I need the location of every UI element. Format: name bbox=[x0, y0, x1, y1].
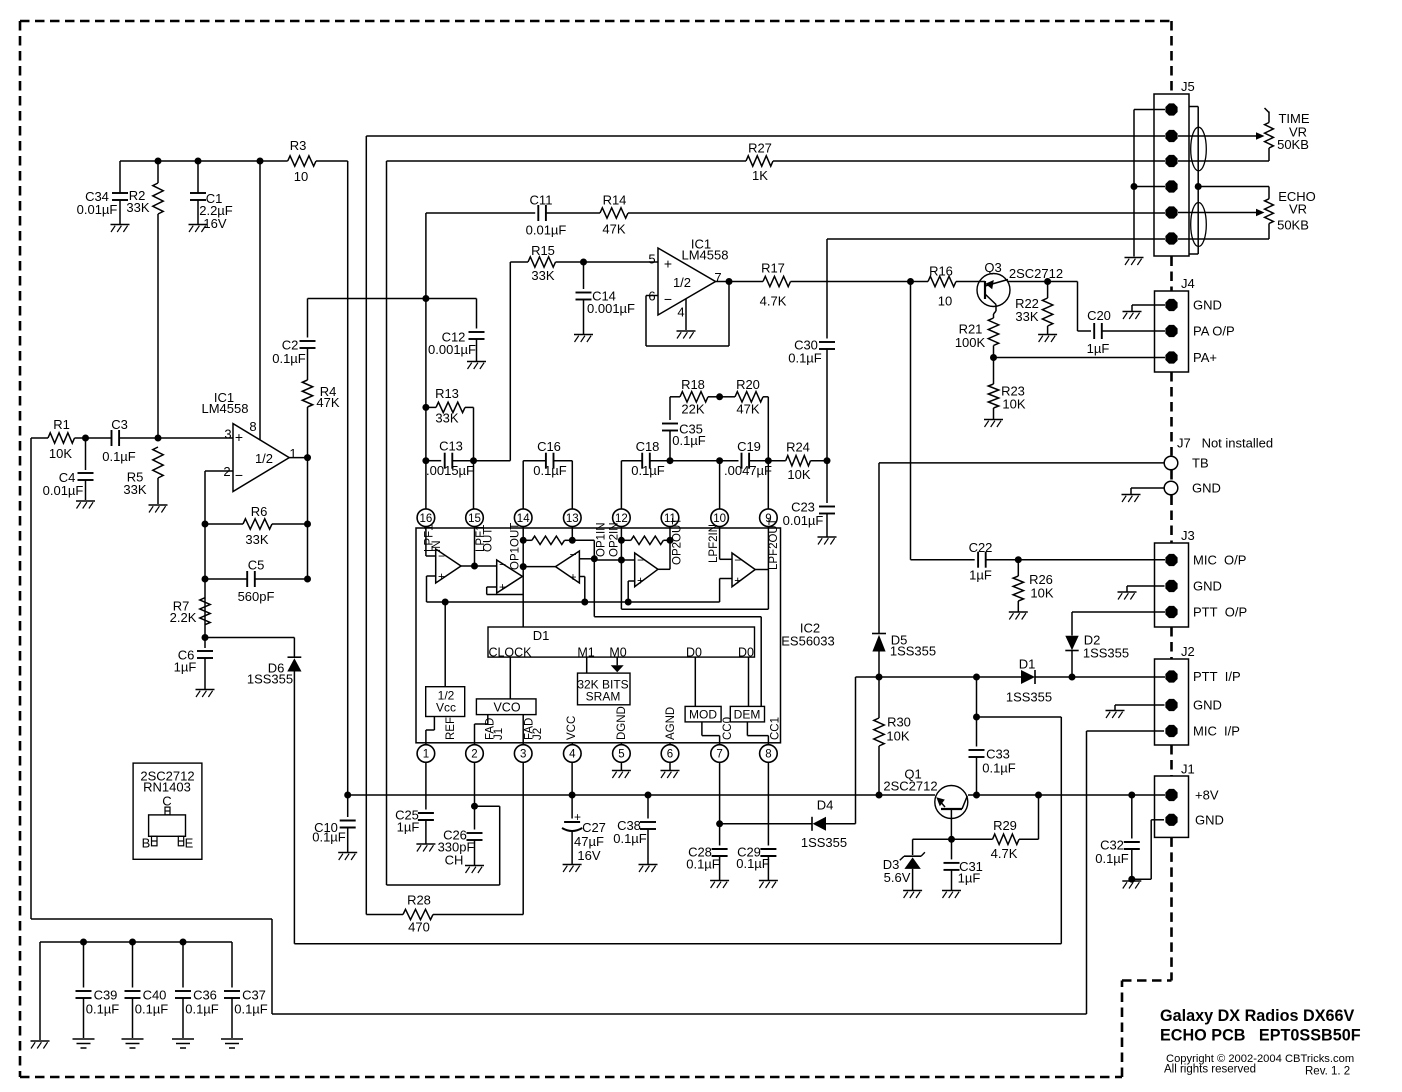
svg-text:0.1µF: 0.1µF bbox=[982, 761, 1016, 776]
svg-text:0.1µF: 0.1µF bbox=[1095, 851, 1129, 866]
svg-text:GND: GND bbox=[1193, 698, 1222, 713]
svg-text:50KB: 50KB bbox=[1277, 137, 1309, 152]
svg-text:10K: 10K bbox=[787, 467, 810, 482]
svg-text:2: 2 bbox=[471, 749, 477, 761]
svg-text:GND: GND bbox=[1192, 481, 1221, 496]
svg-text:ECHO PCB EPT0SSB50F: ECHO PCB EPT0SSB50F bbox=[1160, 1027, 1361, 1045]
svg-text:R14: R14 bbox=[603, 193, 627, 208]
svg-text:4: 4 bbox=[569, 749, 576, 761]
svg-text:1/2: 1/2 bbox=[673, 275, 691, 290]
svg-text:B: B bbox=[142, 836, 151, 851]
svg-text:LM4558: LM4558 bbox=[202, 401, 249, 416]
svg-text:R1: R1 bbox=[53, 417, 70, 432]
svg-text:0.1µF: 0.1µF bbox=[135, 1002, 169, 1017]
svg-text:J3: J3 bbox=[1181, 528, 1195, 543]
svg-text:10K: 10K bbox=[49, 446, 72, 461]
svg-text:R29: R29 bbox=[993, 818, 1017, 833]
svg-text:OP1OUT: OP1OUT bbox=[510, 523, 522, 570]
svg-text:LPF2IN: LPF2IN bbox=[708, 524, 720, 563]
svg-text:33K: 33K bbox=[1015, 309, 1038, 324]
svg-text:TB: TB bbox=[1192, 456, 1209, 471]
svg-text:J4: J4 bbox=[1181, 276, 1195, 291]
svg-text:47K: 47K bbox=[602, 222, 625, 237]
svg-text:+: + bbox=[499, 580, 506, 594]
svg-text:ES56033: ES56033 bbox=[781, 634, 835, 649]
svg-text:0.1µF: 0.1µF bbox=[102, 449, 136, 464]
svg-text:50KB: 50KB bbox=[1277, 218, 1309, 233]
svg-text:RN1403: RN1403 bbox=[143, 780, 191, 795]
svg-text:5: 5 bbox=[648, 252, 655, 267]
svg-text:R6: R6 bbox=[251, 504, 268, 519]
svg-text:0.1µF: 0.1µF bbox=[631, 463, 665, 478]
svg-text:−: − bbox=[734, 553, 741, 567]
svg-text:33K: 33K bbox=[531, 268, 554, 283]
svg-text:R13: R13 bbox=[435, 386, 459, 401]
svg-text:DGND: DGND bbox=[616, 706, 628, 740]
svg-text:−: − bbox=[499, 558, 506, 572]
svg-text:.0047µF: .0047µF bbox=[724, 463, 772, 478]
svg-text:2SC2712: 2SC2712 bbox=[883, 779, 937, 794]
svg-text:22K: 22K bbox=[681, 402, 704, 417]
svg-text:OP2IN: OP2IN bbox=[609, 522, 621, 557]
svg-text:47K: 47K bbox=[736, 402, 759, 417]
svg-text:470: 470 bbox=[408, 920, 430, 935]
svg-text:10K: 10K bbox=[1002, 397, 1025, 412]
svg-text:10: 10 bbox=[938, 294, 952, 309]
svg-text:PA+: PA+ bbox=[1193, 350, 1217, 365]
svg-text:0.01µF: 0.01µF bbox=[526, 223, 567, 238]
svg-text:0.01µF: 0.01µF bbox=[783, 513, 824, 528]
svg-text:C20: C20 bbox=[1087, 308, 1111, 323]
svg-text:J7 Not installed: J7 Not installed bbox=[1177, 436, 1273, 451]
svg-text:560pF: 560pF bbox=[238, 589, 275, 604]
svg-text:1: 1 bbox=[289, 446, 296, 461]
svg-text:1SS355: 1SS355 bbox=[247, 672, 293, 687]
svg-text:R27: R27 bbox=[748, 141, 772, 156]
svg-text:CH: CH bbox=[445, 853, 464, 868]
svg-text:M0: M0 bbox=[609, 646, 626, 660]
svg-text:C: C bbox=[162, 794, 171, 809]
svg-text:Q3: Q3 bbox=[984, 260, 1001, 275]
svg-text:GND: GND bbox=[1193, 579, 1222, 594]
svg-text:3: 3 bbox=[520, 749, 526, 761]
svg-text:47µF: 47µF bbox=[574, 834, 604, 849]
svg-text:0.1µF: 0.1µF bbox=[533, 463, 567, 478]
svg-text:4: 4 bbox=[677, 305, 684, 320]
svg-text:10K: 10K bbox=[1030, 586, 1053, 601]
svg-text:2.2K: 2.2K bbox=[170, 610, 197, 625]
svg-text:1µF: 1µF bbox=[397, 820, 420, 835]
svg-text:D1: D1 bbox=[533, 628, 550, 643]
svg-text:R15: R15 bbox=[531, 243, 555, 258]
svg-text:LPF2OUT: LPF2OUT bbox=[768, 518, 780, 570]
svg-text:R16: R16 bbox=[929, 264, 953, 279]
svg-text:J2: J2 bbox=[1181, 644, 1195, 659]
svg-text:R18: R18 bbox=[681, 377, 705, 392]
svg-text:+: + bbox=[569, 570, 576, 584]
svg-text:E: E bbox=[185, 836, 194, 851]
svg-text:0.1µF: 0.1µF bbox=[613, 831, 647, 846]
svg-text:C39: C39 bbox=[94, 988, 118, 1003]
svg-text:0.1µF: 0.1µF bbox=[86, 1002, 120, 1017]
svg-text:C37: C37 bbox=[242, 988, 266, 1003]
svg-text:C11: C11 bbox=[530, 193, 553, 208]
svg-text:DEM: DEM bbox=[734, 708, 761, 722]
svg-text:C33: C33 bbox=[986, 747, 1010, 762]
svg-text:OP1IN: OP1IN bbox=[596, 522, 608, 557]
svg-text:0.1µF: 0.1µF bbox=[185, 1002, 219, 1017]
svg-text:0.1µF: 0.1µF bbox=[272, 351, 306, 366]
svg-text:R30: R30 bbox=[887, 715, 911, 730]
svg-text:J1: J1 bbox=[1181, 762, 1195, 777]
svg-text:PA O/P: PA O/P bbox=[1193, 324, 1235, 339]
svg-text:1µF: 1µF bbox=[1087, 341, 1110, 356]
svg-text:1/2: 1/2 bbox=[255, 451, 273, 466]
svg-text:.0015µF: .0015µF bbox=[426, 463, 474, 478]
svg-text:100K: 100K bbox=[955, 335, 986, 350]
svg-text:MIC I/P: MIC I/P bbox=[1193, 724, 1240, 739]
svg-text:C36: C36 bbox=[193, 988, 217, 1003]
svg-text:MOD: MOD bbox=[689, 708, 717, 722]
svg-text:VR: VR bbox=[1289, 202, 1307, 217]
svg-text:AGND: AGND bbox=[665, 707, 677, 740]
svg-text:CC1: CC1 bbox=[770, 717, 782, 740]
svg-text:10K: 10K bbox=[886, 729, 909, 744]
svg-text:+8V: +8V bbox=[1195, 788, 1219, 803]
svg-text:CC0: CC0 bbox=[722, 717, 734, 740]
svg-text:D0: D0 bbox=[738, 646, 754, 660]
svg-text:IN: IN bbox=[431, 541, 443, 553]
svg-text:+: + bbox=[664, 256, 672, 272]
svg-text:10: 10 bbox=[713, 513, 726, 525]
svg-text:C16: C16 bbox=[537, 439, 561, 454]
svg-text:0.1µF: 0.1µF bbox=[736, 856, 770, 871]
svg-text:Galaxy DX Radios DX66V: Galaxy DX Radios DX66V bbox=[1160, 1007, 1355, 1025]
svg-text:+: + bbox=[734, 574, 741, 588]
svg-text:−: − bbox=[569, 548, 576, 562]
svg-text:5: 5 bbox=[618, 749, 624, 761]
svg-text:J1: J1 bbox=[493, 728, 505, 740]
svg-text:8: 8 bbox=[765, 749, 771, 761]
svg-text:C5: C5 bbox=[248, 558, 265, 573]
svg-text:R17: R17 bbox=[761, 261, 785, 276]
svg-text:+: + bbox=[574, 810, 581, 824]
svg-text:D1: D1 bbox=[1019, 657, 1036, 672]
svg-text:33K: 33K bbox=[245, 532, 268, 547]
svg-text:10: 10 bbox=[294, 169, 308, 184]
svg-text:C27: C27 bbox=[582, 820, 606, 835]
svg-text:PTT O/P: PTT O/P bbox=[1193, 605, 1247, 620]
svg-text:0.1µF: 0.1µF bbox=[686, 857, 720, 872]
svg-text:+: + bbox=[438, 570, 445, 584]
svg-text:0.1µF: 0.1µF bbox=[234, 1002, 268, 1017]
svg-text:16: 16 bbox=[420, 513, 433, 525]
svg-text:0.01µF: 0.01µF bbox=[77, 202, 118, 217]
svg-text:VCO: VCO bbox=[493, 701, 520, 715]
svg-text:13: 13 bbox=[566, 513, 579, 525]
svg-text:VCC: VCC bbox=[566, 716, 578, 740]
svg-text:1SS355: 1SS355 bbox=[890, 644, 936, 659]
svg-text:Vcc: Vcc bbox=[436, 701, 456, 715]
svg-text:16V: 16V bbox=[577, 848, 600, 863]
svg-text:7: 7 bbox=[716, 749, 722, 761]
svg-text:0.1µF: 0.1µF bbox=[788, 351, 822, 366]
svg-text:0.1µF: 0.1µF bbox=[672, 433, 706, 448]
svg-text:1µF: 1µF bbox=[969, 568, 992, 583]
svg-text:1SS355: 1SS355 bbox=[801, 835, 847, 850]
svg-text:OP2OUT: OP2OUT bbox=[672, 518, 684, 565]
svg-text:16V: 16V bbox=[203, 216, 226, 231]
svg-text:C19: C19 bbox=[737, 439, 761, 454]
svg-text:−: − bbox=[637, 553, 644, 567]
svg-text:8: 8 bbox=[249, 419, 256, 434]
svg-text:+: + bbox=[637, 574, 644, 588]
svg-text:33K: 33K bbox=[123, 482, 146, 497]
svg-text:C13: C13 bbox=[439, 439, 463, 454]
svg-text:C22: C22 bbox=[969, 540, 993, 555]
svg-text:−: − bbox=[664, 291, 672, 307]
svg-text:SRAM: SRAM bbox=[586, 690, 621, 704]
svg-text:−: − bbox=[235, 467, 243, 483]
svg-text:2SC2712: 2SC2712 bbox=[1009, 266, 1063, 281]
svg-text:1K: 1K bbox=[752, 168, 768, 183]
svg-text:0.01µF: 0.01µF bbox=[43, 483, 84, 498]
svg-text:3: 3 bbox=[224, 427, 231, 442]
svg-text:5.6V: 5.6V bbox=[884, 870, 911, 885]
svg-text:4.7K: 4.7K bbox=[991, 846, 1018, 861]
svg-text:R20: R20 bbox=[736, 377, 760, 392]
svg-text:REF: REF bbox=[445, 717, 457, 740]
svg-text:+: + bbox=[235, 429, 243, 445]
svg-text:D0: D0 bbox=[686, 646, 702, 660]
svg-text:C18: C18 bbox=[636, 439, 660, 454]
svg-text:D4: D4 bbox=[817, 798, 834, 813]
svg-text:GND: GND bbox=[1195, 812, 1224, 827]
svg-text:0.001µF: 0.001µF bbox=[428, 342, 476, 357]
svg-text:J5: J5 bbox=[1181, 79, 1195, 94]
svg-text:R24: R24 bbox=[786, 440, 810, 455]
svg-text:C40: C40 bbox=[143, 988, 167, 1003]
svg-text:GND: GND bbox=[1193, 298, 1222, 313]
svg-text:1µF: 1µF bbox=[174, 660, 197, 675]
svg-text:1: 1 bbox=[423, 749, 429, 761]
svg-text:PTT I/P: PTT I/P bbox=[1193, 669, 1241, 684]
svg-text:C3: C3 bbox=[111, 417, 128, 432]
svg-text:33K: 33K bbox=[126, 200, 149, 215]
svg-text:OUT: OUT bbox=[483, 528, 495, 552]
svg-text:47K: 47K bbox=[316, 395, 339, 410]
svg-text:Rev. 1. 2: Rev. 1. 2 bbox=[1305, 1066, 1350, 1078]
svg-text:33K: 33K bbox=[435, 411, 458, 426]
svg-text:R3: R3 bbox=[290, 138, 307, 153]
svg-text:LM4558: LM4558 bbox=[682, 248, 729, 263]
svg-text:MIC O/P: MIC O/P bbox=[1193, 553, 1246, 568]
svg-text:All rights reserved: All rights reserved bbox=[1164, 1064, 1256, 1076]
svg-text:6: 6 bbox=[667, 749, 673, 761]
svg-text:0.1µF: 0.1µF bbox=[312, 830, 346, 845]
svg-text:1SS355: 1SS355 bbox=[1006, 690, 1052, 705]
svg-text:R28: R28 bbox=[407, 893, 431, 908]
svg-text:4.7K: 4.7K bbox=[760, 294, 787, 309]
svg-text:15: 15 bbox=[468, 513, 481, 525]
svg-text:1µF: 1µF bbox=[958, 871, 981, 886]
svg-text:J2: J2 bbox=[532, 728, 544, 740]
svg-text:1SS355: 1SS355 bbox=[1083, 646, 1129, 661]
svg-text:7: 7 bbox=[714, 270, 721, 285]
svg-text:0.001µF: 0.001µF bbox=[587, 301, 635, 316]
